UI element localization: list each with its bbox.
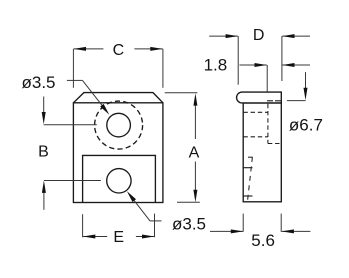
centerline bottom hole [44,180,101,182]
leader top hole diameter [67,79,83,81]
hidden line inside cap [267,100,281,102]
svg-text:A: A [189,144,200,161]
dimension C [74,48,104,50]
lower hole edge lower [243,195,252,197]
bottom hole circle [107,169,131,193]
dimension A [194,101,196,139]
side view body outline [243,103,281,202]
centerline top hole [44,124,97,126]
svg-text:5.6: 5.6 [251,231,275,250]
leader bottom hole diameter [131,196,151,221]
hidden tick [248,156,253,158]
front view lower boss rectangle [83,155,156,202]
svg-text:ø6.7: ø6.7 [289,116,323,135]
hidden line counterbore top [243,111,268,113]
hidden slanted hole line [247,157,252,202]
svg-text:D: D [253,27,265,44]
dimension D [209,35,238,37]
front view top face [73,93,162,103]
front view body outline [73,103,162,203]
dimension B [43,97,45,117]
svg-text:E: E [113,229,124,246]
lower hole edge upper [243,167,252,169]
dimension 5.6 [242,214,244,232]
dimension diameter 6.7 [305,72,307,91]
top hole circle [107,113,131,137]
dimension 1.8 [240,64,267,66]
svg-text:ø3.5: ø3.5 [172,214,206,233]
svg-text:ø3.5: ø3.5 [22,73,56,92]
hidden line counterbore bottom [243,136,268,138]
svg-text:B: B [38,143,49,160]
side view cap (flange) [237,92,282,103]
hidden line hole exit [268,143,281,145]
svg-text:1.8: 1.8 [204,56,228,75]
dimension E [83,236,107,238]
counterbore dashed circle [95,101,143,149]
svg-text:C: C [113,42,125,59]
hidden line counterbore depth [267,104,269,144]
